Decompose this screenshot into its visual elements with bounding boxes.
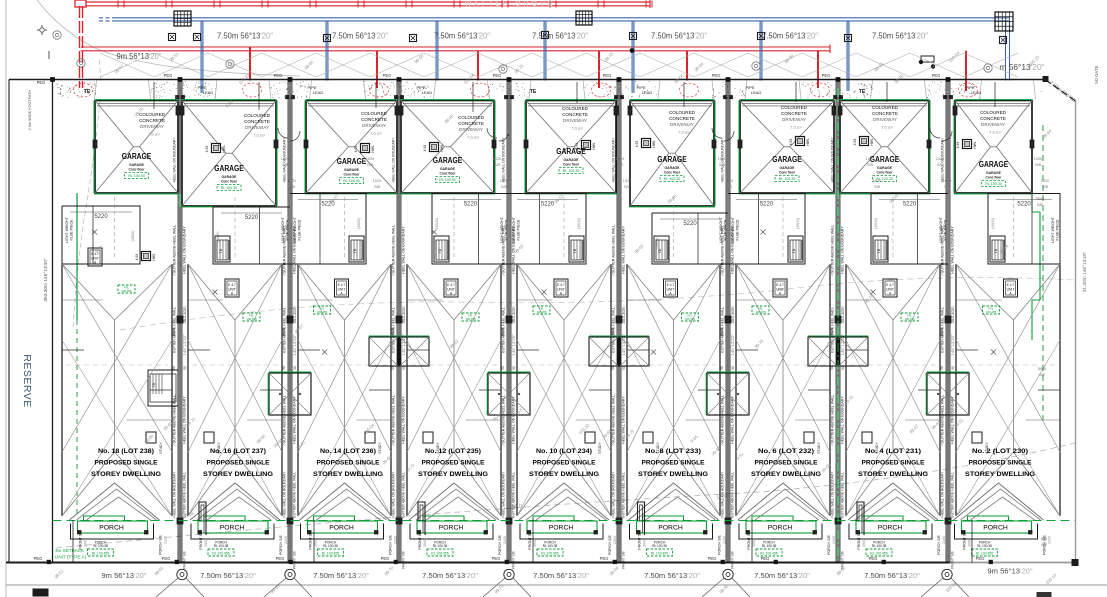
green fence lot1 west dashed: [76, 320, 78, 518]
dwelling cross wall lot 1: [62, 349, 84, 351]
svg-text:PROPOSED SINGLE: PROPOSED SINGLE: [317, 460, 380, 467]
garage lot 4 outline: [401, 101, 494, 194]
svg-text:No. 14 (LOT 236): No. 14 (LOT 236): [320, 448, 376, 455]
porch lot 8 black outline: [849, 524, 932, 540]
svg-text:/ GUTTER ABOVE HEEL WALL: / GUTTER ABOVE HEEL WALL: [392, 225, 396, 276]
svg-text:GUTTER ABOVE HEEL WALL: GUTTER ABOVE HEEL WALL: [721, 307, 725, 353]
dwelling cross wall lot 2: [188, 349, 210, 351]
svg-text:7.50m 56°13′20″: 7.50m 56°13′20″: [532, 31, 588, 41]
svg-text:HEEL WALL ON BOUNDARY: HEEL WALL ON BOUNDARY: [293, 396, 297, 444]
TD box lot 6: [654, 236, 669, 262]
svg-text:HWL: HWL: [592, 142, 596, 149]
svg-text:E 4.7: E 4.7: [1007, 283, 1015, 287]
svg-text:5220: 5220: [1017, 202, 1031, 208]
dwelling cross wall lot 8: [846, 349, 868, 351]
garage lot 6 door lines: [632, 103, 712, 105]
svg-text:E 4.7: E 4.7: [557, 283, 565, 287]
boundary porch nub 399: [396, 518, 402, 524]
garage lot 6 green fence side: [714, 101, 716, 207]
red main top line: [86, 1, 650, 3]
mid RL box lot 8: [901, 313, 918, 321]
survey cross lot 1: [92, 230, 97, 235]
garage lot 8 outline: [840, 101, 929, 194]
garage lot 8 green fence side: [929, 101, 931, 194]
water valve 7: [758, 33, 765, 40]
svg-text:DRIVEWAY: DRIVEWAY: [140, 124, 164, 129]
svg-text:3000: 3000: [204, 539, 208, 547]
reserve west line: [8, 80, 10, 563]
svg-text:1020: 1020: [281, 157, 289, 161]
water valve 2: [194, 34, 201, 41]
meter box lot 1: [142, 252, 151, 261]
TD box lot 1: [148, 370, 178, 406]
svg-text:100.455: 100.455: [755, 310, 766, 314]
svg-text:FRONT S/B: FRONT S/B: [309, 530, 313, 550]
svg-text:2.0m WIDE FOOTPATH: 2.0m WIDE FOOTPATH: [28, 89, 32, 130]
svg-text:1020: 1020: [366, 157, 374, 161]
svg-text:S/B: S/B: [719, 163, 726, 167]
garage lot 7 outline: [740, 101, 834, 194]
svg-text:GUTTER ABOVE HEEL WALL: GUTTER ABOVE HEEL WALL: [183, 472, 187, 518]
survey sight lines zigzag: [100, 53, 1018, 77]
svg-text:FRONT S/B: FRONT S/B: [418, 530, 422, 550]
svg-text:S/B: S/B: [944, 185, 951, 189]
svg-text:DRIVEWAY: DRIVEWAY: [873, 117, 897, 122]
svg-text:S/B: S/B: [867, 163, 874, 167]
garage lot 3 green fence top: [306, 99, 397, 101]
garage lot 7 green fence top: [740, 99, 834, 101]
garage lot 6 roof hips: [630, 101, 669, 154]
svg-text:E 4.7: E 4.7: [886, 283, 894, 287]
survey sight lines zigzag 2: [100, 53, 1018, 77]
garage lot 3 green fence side: [304, 101, 306, 194]
peg marks boundary 180: [176, 96, 179, 99]
blue water main line: [112, 17, 1009, 19]
svg-text:FRONT S/B: FRONT S/B: [638, 530, 642, 550]
dwelling cross wall lot 4: [407, 349, 429, 351]
svg-text:GUTTER ABOVE HEEL WALL: GUTTER ABOVE HEEL WALL: [612, 307, 616, 353]
svg-text:GARAGE: GARAGE: [564, 158, 580, 162]
svg-text:1020: 1020: [718, 157, 726, 161]
porch lot 2 green outline: [204, 516, 245, 521]
svg-text:RL 100.38: RL 100.38: [652, 544, 667, 548]
dwelling walls lot 6: [626, 264, 628, 516]
svg-text:TD: TD: [877, 248, 881, 253]
svg-text:S/B: S/B: [1042, 185, 1049, 189]
svg-text:2100: 2100: [164, 536, 168, 544]
svg-text:PORCH S/E: PORCH S/E: [498, 535, 502, 555]
water valve 3: [324, 35, 331, 42]
svg-text:50: 50: [183, 366, 187, 370]
svg-text:RL 100.30: RL 100.30: [563, 169, 579, 173]
svg-text:HWL: HWL: [152, 253, 156, 260]
svg-text:7.50m 56°13′20″: 7.50m 56°13′20″: [217, 31, 273, 41]
blue water main turn down: [1005, 21, 1007, 88]
svg-text:DRIVEWAY: DRIVEWAY: [670, 122, 694, 127]
junction box 3: [995, 12, 1013, 31]
svg-text:GARAGE: GARAGE: [870, 155, 900, 164]
svg-text:1020: 1020: [1041, 179, 1049, 183]
survey cross lot 3: [322, 350, 327, 355]
svg-text:LIGHT WEIGHT: LIGHT WEIGHT: [719, 216, 723, 243]
svg-text:100.455: 100.455: [986, 310, 997, 314]
svg-text:/ GUTTER ABOVE HEEL WALL: / GUTTER ABOVE HEEL WALL: [392, 395, 396, 446]
svg-text:PEG: PEG: [383, 73, 392, 78]
garage lot 3 RL box: [340, 178, 364, 184]
dwelling roof lot 1: [62, 264, 115, 320]
garage lot 5 RL box: [559, 168, 583, 174]
svg-text:TD: TD: [438, 248, 442, 253]
survey station circle top 3: [226, 60, 234, 68]
svg-text:100.455: 100.455: [904, 317, 915, 321]
svg-text:/ GUTTER ABOVE HEEL WALL: / GUTTER ABOVE HEEL WALL: [612, 225, 616, 276]
svg-text:5220: 5220: [760, 202, 774, 208]
mid RL box lot 9: [983, 306, 1000, 314]
TD box lot 4: [434, 236, 449, 262]
svg-text:PROPOSED SINGLE: PROPOSED SINGLE: [862, 460, 925, 467]
garage lot 9 green fence top: [955, 99, 1032, 101]
garage lot 2 green fence side: [276, 101, 278, 207]
study window lot 2: [204, 432, 214, 443]
svg-text:RL 100.455: RL 100.455: [870, 552, 888, 556]
lot boundary x=180: [177, 80, 179, 563]
dwelling walls lot 1: [61, 264, 63, 516]
garage lot 8 green fence bottom: [839, 193, 930, 195]
svg-text:PEG: PEG: [34, 556, 43, 561]
porch lot 6 black outline: [630, 524, 713, 540]
garage lot 8 roof hips: [840, 101, 882, 147]
dwelling cross wall lot 5: [517, 349, 539, 351]
water valve 5: [542, 32, 549, 39]
red main tick 1: [117, 1, 119, 8]
junction box 2: [576, 11, 592, 25]
svg-text:7.50m 56°13′20″: 7.50m 56°13′20″: [313, 571, 369, 580]
svg-text:PROPOSED SINGLE: PROPOSED SINGLE: [207, 460, 270, 467]
survey circle bottom 5: [942, 569, 952, 579]
pipe circle 2: [243, 83, 262, 97]
water valve 6: [630, 33, 637, 40]
svg-text:PROPOSED SINGLE: PROPOSED SINGLE: [969, 460, 1032, 467]
lot boundary x=838: [835, 80, 837, 563]
sewer line below porch lot 9: [971, 520, 973, 563]
porch lot 4 return nib: [418, 502, 425, 535]
porch lot 5 posts: [527, 531, 531, 535]
svg-text:FRONT S/B: FRONT S/B: [183, 550, 187, 568]
pipe circle 5: [592, 83, 611, 97]
garage lot 8 RL box: [873, 176, 897, 182]
rear room lot 3: [290, 194, 366, 265]
svg-text:PEG: PEG: [37, 80, 46, 85]
svg-text:LIGHT WEIGHT: LIGHT WEIGHT: [1051, 216, 1055, 243]
svg-text:CONCRETE: CONCRETE: [669, 116, 695, 121]
unit box lot 5: [554, 279, 568, 297]
front gable lot 8: [848, 483, 938, 520]
porch lot 2 return nib: [199, 502, 206, 535]
svg-text:HWL: HWL: [806, 138, 810, 145]
svg-text:STUDY: STUDY: [159, 442, 163, 454]
svg-text:FRONT S/B: FRONT S/B: [512, 550, 516, 568]
front fence green dashed: [53, 520, 1076, 522]
page left edge line: [5, 0, 7, 597]
svg-text:STUDY: STUDY: [817, 442, 821, 454]
svg-text:RL 100.38: RL 100.38: [93, 544, 108, 548]
svg-text:146°13′20″: 146°13′20″: [182, 334, 187, 356]
sewer line below porch lot 1: [72, 520, 74, 563]
dwelling interior dashes lot 6: [673, 197, 675, 260]
svg-text:FLUE PIECE: FLUE PIECE: [517, 219, 521, 241]
svg-text:S/B: S/B: [367, 163, 374, 167]
peg marks boundary 728: [724, 96, 727, 99]
driveway crossing lot 6: [660, 81, 712, 100]
svg-text:HEEL WALL ON BOUNDARY: HEEL WALL ON BOUNDARY: [622, 226, 626, 274]
svg-text:HWL: HWL: [870, 138, 874, 145]
svg-text:m 56°13′20″: m 56°13′20″: [999, 62, 1044, 72]
svg-text:/ GUTTER ABOVE HEEL WALL: / GUTTER ABOVE HEEL WALL: [831, 395, 835, 446]
svg-text:COLOURED: COLOURED: [361, 111, 388, 116]
lot boundary x=728: [725, 80, 727, 563]
svg-text:TD: TD: [152, 382, 156, 387]
water valve 4: [410, 35, 417, 42]
svg-text:HWL: HWL: [440, 144, 444, 151]
svg-text:LIGHT WEIGHT: LIGHT WEIGHT: [281, 216, 285, 243]
porch lot 7 posts: [746, 531, 750, 535]
porch lot 6 posts: [637, 531, 641, 535]
svg-text:RL 100.455: RL 100.455: [212, 552, 230, 556]
svg-text:DRIVEWAY: DRIVEWAY: [459, 127, 483, 132]
front gable lot 7: [738, 483, 828, 520]
rear room lot 5: [509, 194, 586, 265]
shed boxes boundary 619: [589, 337, 618, 366]
driveway leader lot 7: [795, 82, 797, 102]
svg-text:E 4.7: E 4.7: [447, 283, 455, 287]
svg-text:2100: 2100: [723, 536, 727, 544]
front gable lot 2: [190, 483, 280, 520]
svg-text:7.0 m²: 7.0 m²: [571, 126, 583, 131]
meter box lot 8: [860, 137, 869, 146]
garage lot 4 wall nubs: [399, 106, 403, 115]
svg-text:5220: 5220: [903, 202, 917, 208]
red main tick 4: [261, 1, 263, 8]
svg-text:(4800): (4800): [655, 237, 659, 249]
svg-text:/ GUTTER ABOVE HEEL WALL: / GUTTER ABOVE HEEL WALL: [941, 395, 945, 446]
TD box lot 9: [990, 236, 1005, 262]
dwelling cross wall lot 3: [298, 349, 320, 351]
svg-text:GUTTER ABOVE HEEL WALL: GUTTER ABOVE HEEL WALL: [502, 307, 506, 353]
svg-text:LIGHT WEIGHT: LIGHT WEIGHT: [731, 216, 735, 243]
shed boxes boundary 399: [369, 337, 398, 366]
red main tick 8: [453, 1, 455, 8]
svg-text:4.93: 4.93: [789, 139, 793, 146]
TD box lot 8: [873, 236, 888, 262]
svg-text:RL 100.38: RL 100.38: [543, 544, 558, 548]
svg-text:/ HEEL WALL ON BOUNDARY: / HEEL WALL ON BOUNDARY: [392, 471, 396, 518]
blue service dropper 2: [325, 21, 327, 88]
alfresco box boundary 509: [488, 373, 530, 415]
svg-text:7.50m 56°13′20″: 7.50m 56°13′20″: [533, 571, 589, 580]
contour line 99.5 mid: [120, 278, 1075, 330]
svg-text:COLOURED: COLOURED: [139, 112, 166, 117]
front gable lot 5: [519, 483, 609, 520]
svg-text:RL 100.455: RL 100.455: [541, 552, 559, 556]
svg-text:353.30m 146°13′40″: 353.30m 146°13′40″: [43, 258, 49, 301]
gate swing arc 4: [930, 128, 940, 138]
meter box lot 5: [582, 141, 591, 150]
dwelling walls lot 3: [297, 264, 299, 516]
driveway leader lot 4: [472, 82, 474, 112]
alfresco box boundary 948: [927, 373, 969, 415]
garage lot 1 door lines: [97, 103, 176, 105]
svg-text:PORCH: PORCH: [658, 525, 683, 532]
garage lot 4 RL box: [436, 177, 460, 183]
svg-text:Conc floor: Conc floor: [129, 168, 146, 172]
svg-text:No. 16 (LOT 237): No. 16 (LOT 237): [210, 448, 266, 455]
svg-text:146°13′20″: 146°13′20″: [292, 334, 297, 356]
boundary hws nub 399: [396, 316, 402, 323]
dwelling walls lot 2: [187, 264, 189, 516]
svg-text:FLUE PIECE: FLUE PIECE: [70, 219, 74, 241]
dwelling interior dashes lot 3: [344, 197, 346, 260]
svg-text:5220: 5220: [541, 202, 555, 208]
svg-text:HWL: HWL: [222, 145, 226, 152]
driveway leader lot 2: [258, 82, 260, 110]
svg-text:TD: TD: [353, 248, 357, 253]
svg-text:GUTTER ABOVE HEEL WALL: GUTTER ABOVE HEEL WALL: [293, 472, 297, 518]
peg marks boundary 509: [505, 96, 508, 99]
stipple ticks: [61, 82, 1023, 98]
dwelling interior dashes lot 4: [453, 197, 455, 260]
svg-text:GUTTER ABOVE HEEL WALL: GUTTER ABOVE HEEL WALL: [392, 307, 396, 353]
mid RL box lot 1: [118, 285, 135, 293]
red main tick 2: [165, 1, 167, 8]
svg-text:COLOURED: COLOURED: [562, 106, 589, 111]
garage lot 1 wall nubs: [176, 106, 180, 115]
rear room lot 8: [871, 194, 948, 265]
red main tick 10: [549, 1, 551, 8]
garage lot 2 door lines: [184, 103, 274, 105]
svg-text:2100: 2100: [832, 536, 836, 544]
boundary hws nub 509: [506, 316, 512, 323]
porch lot 8 green outline: [862, 516, 903, 521]
contour line top-left: [37, 0, 300, 76]
svg-text:STOREY DWELLING: STOREY DWELLING: [529, 471, 599, 478]
garage lot 4 green fence side: [494, 101, 496, 194]
driveway leader lot 5: [576, 82, 578, 103]
garage lot 7 door lines: [742, 103, 832, 105]
gate swing arc 2: [487, 128, 497, 138]
svg-text:3000: 3000: [1036, 197, 1044, 201]
garage lot 9 wall nubs: [953, 106, 957, 115]
dwelling interior dashes lot 2: [234, 197, 236, 260]
garage lot 9 roof hips: [955, 101, 991, 147]
svg-text:146°13′20″: 146°13′20″: [950, 334, 955, 356]
svg-text:4.93: 4.93: [354, 146, 358, 153]
garage lot 4 green fence bottom: [400, 193, 495, 195]
svg-text:7.50m 56°13′20″: 7.50m 56°13′20″: [754, 571, 810, 580]
small tick: [48, 51, 50, 59]
svg-text:1020: 1020: [725, 179, 733, 183]
dwelling walls lot 9: [955, 264, 957, 516]
red hydrant box: [75, 0, 86, 7]
garage lot 7 green fence side: [738, 101, 740, 194]
svg-text:PEG: PEG: [822, 73, 831, 78]
svg-text:NO GATE: NO GATE: [1094, 66, 1099, 85]
svg-text:3000: 3000: [423, 539, 427, 547]
pipe circle 7: [811, 83, 830, 97]
pipe circle 4: [471, 83, 490, 97]
driveway crossing lot 4: [436, 81, 488, 100]
svg-text:TD: TD: [792, 248, 796, 253]
svg-text:1020: 1020: [936, 157, 944, 161]
svg-text:FRONT S/B: FRONT S/B: [951, 550, 955, 568]
black dot on dropper b: [919, 60, 923, 64]
unit box lot 9: [1004, 279, 1018, 297]
site boundary bottom: [6, 562, 950, 564]
svg-text:3000: 3000: [752, 539, 756, 547]
svg-text:PORCH: PORCH: [768, 525, 793, 532]
garage lot 9 green fence bottom: [954, 193, 1033, 195]
dwelling roof lot 3: [298, 264, 345, 320]
driveway crossing lot 2: [217, 81, 269, 100]
svg-text:3000: 3000: [84, 539, 88, 547]
survey circle bottom 2: [285, 569, 295, 579]
svg-text:4.93: 4.93: [135, 254, 139, 261]
svg-text:LIGHT WEIGHT: LIGHT WEIGHT: [293, 216, 297, 243]
red service dropper 5: [686, 51, 688, 91]
meter box lot 6: [642, 139, 651, 148]
svg-text:50: 50: [512, 366, 516, 370]
peg marks boundary 838: [834, 96, 837, 99]
svg-text:HEEL WALL ON BOUNDARY: HEEL WALL ON BOUNDARY: [512, 396, 516, 444]
svg-text:LIGHT WEIGHT: LIGHT WEIGHT: [512, 216, 516, 243]
svg-text:FLUE PIECE: FLUE PIECE: [505, 219, 509, 241]
svg-text:GARAGE: GARAGE: [440, 167, 456, 171]
svg-text:STOREY DWELLING: STOREY DWELLING: [91, 471, 161, 478]
svg-text:DRIVEWAY: DRIVEWAY: [563, 118, 587, 123]
svg-text:FLUE PIECE: FLUE PIECE: [298, 219, 302, 241]
svg-text:7.50m 56°13′20″: 7.50m 56°13′20″: [422, 571, 478, 580]
svg-text:DRIVEWAY: DRIVEWAY: [245, 125, 269, 130]
porch lot 5 black outline: [520, 524, 603, 540]
boundary porch nub 728: [725, 518, 731, 524]
garage lot 3 door lines: [308, 103, 395, 105]
svg-text:GARAGE: GARAGE: [986, 171, 1002, 175]
svg-text:RL 100.38: RL 100.38: [433, 544, 448, 548]
svg-text:COLOURED: COLOURED: [781, 105, 808, 110]
svg-text:1020: 1020: [493, 157, 501, 161]
svg-text:7.50m 56°13′20″: 7.50m 56°13′20″: [872, 31, 928, 41]
garage lot 5 green fence top: [526, 99, 616, 101]
svg-text:HEEL WALL ON BOUNDARY: HEEL WALL ON BOUNDARY: [731, 396, 735, 444]
svg-text:GUTTER ABOVE HEEL WALL: GUTTER ABOVE HEEL WALL: [402, 472, 406, 518]
mid RL box lot 6: [682, 313, 699, 321]
svg-text:GARAGE: GARAGE: [337, 157, 367, 166]
svg-text:(4800): (4800): [357, 217, 361, 229]
dwelling roof lot 5: [517, 264, 564, 320]
svg-text:100.455: 100.455: [121, 289, 132, 293]
svg-text:LEAD: LEAD: [971, 90, 982, 95]
blue water main dashes: [99, 17, 112, 19]
svg-text:50: 50: [622, 366, 626, 370]
svg-text:PORCH: PORCH: [549, 525, 574, 532]
svg-text:S/E: S/E: [1037, 203, 1044, 207]
red main tick 7: [405, 1, 407, 8]
porch lot 4 green outline: [423, 516, 464, 521]
svg-text:7.0 m²: 7.0 m²: [881, 125, 893, 130]
svg-text:HEEL WALL ON BOUNDARY: HEEL WALL ON BOUNDARY: [173, 137, 177, 183]
svg-text:(4800): (4800): [131, 230, 135, 242]
garage lot 6 RL box: [660, 176, 684, 182]
garage lot 4 roof hips: [401, 101, 445, 147]
